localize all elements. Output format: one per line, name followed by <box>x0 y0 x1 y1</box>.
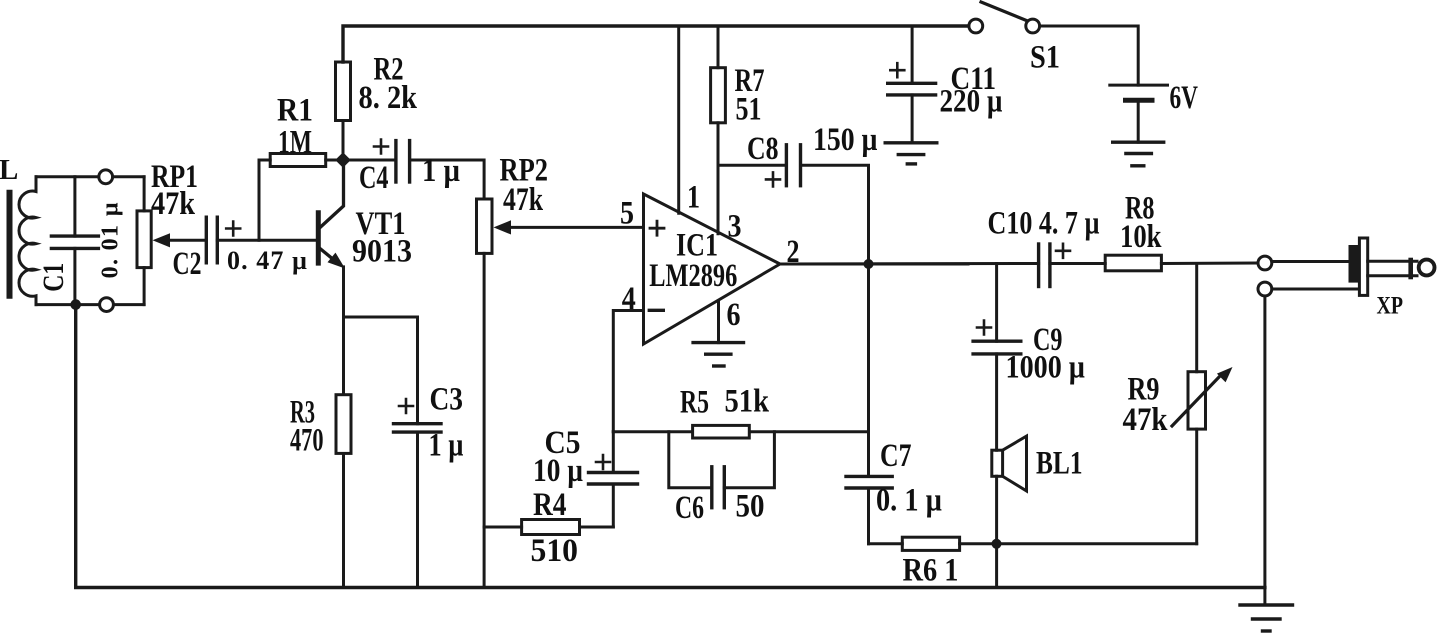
wire: output down to feedback and C7 <box>867 264 870 476</box>
svg-text:C10 4. 7 µ: C10 4. 7 µ <box>988 206 1100 242</box>
svg-text:6: 6 <box>727 297 741 333</box>
svg-text:LM2896: LM2896 <box>649 258 737 294</box>
RP1 wiper arrow <box>153 233 207 247</box>
svg-text:510: 510 <box>531 533 579 569</box>
svg-text:1 µ: 1 µ <box>422 153 460 189</box>
wire: C2 to VT1 base <box>217 239 318 242</box>
svg-text:C7: C7 <box>880 438 912 474</box>
battery GB 6V long plate <box>1110 84 1168 87</box>
pin 3 wire <box>717 165 720 234</box>
svg-text:9013: 9013 <box>352 234 412 270</box>
svg-text:10 µ: 10 µ <box>533 453 583 489</box>
resistor R6 <box>902 537 1196 550</box>
resistor R4 <box>522 520 614 535</box>
junction: output / C8 / feedback <box>864 259 874 269</box>
svg-text:47k: 47k <box>151 186 196 222</box>
svg-text:4: 4 <box>622 281 636 317</box>
capacitor C3 <box>394 424 442 588</box>
plug XP body (black) <box>1349 245 1361 283</box>
C3 polarity plus <box>399 399 413 413</box>
svg-text:6V: 6V <box>1170 80 1199 116</box>
ground (C11) <box>885 143 937 164</box>
capacitor C2 <box>206 217 217 263</box>
capacitor C9 <box>973 341 1021 450</box>
svg-text:C6: C6 <box>675 490 704 526</box>
switch S1 contact left <box>969 19 983 33</box>
svg-text:C4: C4 <box>359 160 389 196</box>
capacitor C8 <box>718 145 869 264</box>
wire: rail from switch S1 to battery <box>1040 26 1138 85</box>
C9 polarity plus <box>977 321 991 335</box>
svg-text:C3: C3 <box>430 382 464 418</box>
switch S1 contact right <box>1026 19 1040 33</box>
plug XP shaft <box>1368 261 1417 276</box>
svg-text:R4: R4 <box>533 487 567 523</box>
svg-text:C2: C2 <box>173 246 202 282</box>
node A: R1/R2/C4/VT1 collector <box>335 152 351 168</box>
C5 polarity plus <box>596 455 610 469</box>
wire: rail to C11 <box>911 26 914 83</box>
svg-text:R1: R1 <box>277 93 313 129</box>
svg-text:47k: 47k <box>503 182 543 218</box>
wire: R4 from ground column <box>484 526 521 529</box>
transistor VT1 base bar <box>316 213 321 263</box>
svg-text:0. 1 µ: 0. 1 µ <box>876 483 942 519</box>
IC1 plus input mark <box>650 221 664 235</box>
pin 1 wire to rail <box>677 26 680 213</box>
pin 4 wire (inverting input loop) <box>613 311 643 432</box>
wire: C4 to RP2 top <box>410 160 485 199</box>
svg-text:C1: C1 <box>37 263 70 292</box>
C11 polarity plus <box>890 63 904 77</box>
C8 polarity plus <box>766 172 780 186</box>
VT1 emitter with arrow <box>320 249 345 588</box>
wire: tank top (L / C1 / terminal / RP1) <box>36 175 144 178</box>
wire: C7 to R6 <box>869 542 903 545</box>
svg-text:3: 3 <box>728 209 742 245</box>
capacitor C11 <box>888 83 936 143</box>
resistor R8 <box>1105 255 1161 271</box>
pin 6 wire to ground <box>717 301 720 342</box>
potentiometer RP2 <box>477 199 493 588</box>
battery 6V short plate <box>1126 98 1153 103</box>
wire: XP top contact to plug <box>1272 260 1348 263</box>
plug XP bottom contact <box>1258 282 1272 296</box>
wire: R1 left leg down to base <box>259 160 270 240</box>
svg-text:1000 µ: 1000 µ <box>1006 350 1086 386</box>
loudspeaker BL1 <box>992 436 1027 587</box>
svg-text:5: 5 <box>620 196 634 232</box>
svg-text:1: 1 <box>687 180 700 216</box>
wire: bottom ground rail <box>76 305 1265 588</box>
capacitor C6 loop wires <box>669 432 775 488</box>
wire: C9 / BL1 branch <box>995 264 998 342</box>
op-amp IC1 triangle <box>644 194 781 344</box>
svg-text:R6 1: R6 1 <box>903 553 959 589</box>
wire: XP bottom contact to plug collar <box>1272 288 1360 291</box>
resistor R7 <box>711 26 726 165</box>
capacitor C5 <box>589 432 638 527</box>
wire: XP bottom contact to ground <box>1263 296 1266 605</box>
svg-text:2: 2 <box>787 234 800 270</box>
junction: BL1 / R6 / R9 <box>992 539 1002 549</box>
svg-text:150 µ: 150 µ <box>813 122 878 158</box>
C2 polarity plus <box>226 222 240 236</box>
svg-text:0. 47 µ: 0. 47 µ <box>227 246 307 275</box>
C4 polarity plus <box>374 140 388 154</box>
svg-text:51: 51 <box>736 92 762 128</box>
svg-text:8. 2k: 8. 2k <box>359 80 418 116</box>
svg-text:47k: 47k <box>1123 402 1169 438</box>
wire: top supply rail <box>343 26 969 62</box>
capacitor C10 <box>1039 244 1050 287</box>
ground (XP) <box>1240 605 1293 631</box>
plug XP collar <box>1359 238 1367 295</box>
capacitor C4 <box>343 141 410 182</box>
inductor L (antenna coil) <box>19 177 36 305</box>
svg-text:470: 470 <box>290 423 324 459</box>
svg-text:BL1: BL1 <box>1036 446 1083 482</box>
wire: tank bottom <box>36 303 144 306</box>
potentiometer RP1 <box>137 177 151 305</box>
svg-text:S1: S1 <box>1030 40 1060 76</box>
svg-text:1M: 1M <box>278 125 312 161</box>
wire: battery to ground <box>1137 100 1140 142</box>
rheostat R9 <box>1172 264 1233 544</box>
switch S1 lever <box>981 2 1027 21</box>
VT1 collector <box>320 160 344 228</box>
svg-text:XP: XP <box>1377 293 1404 320</box>
svg-text:C8: C8 <box>747 131 779 167</box>
wire: feedback line pin4 to output column <box>613 430 868 433</box>
C10 polarity plus <box>1056 244 1070 258</box>
terminal (bottom antenna tap) <box>100 298 114 312</box>
IC1 minus input mark <box>649 309 663 312</box>
resistor R2 <box>336 62 351 160</box>
ground (battery) <box>1113 142 1164 166</box>
capacitor C7 <box>846 476 892 543</box>
capacitor C6 plates <box>712 467 725 508</box>
svg-text:50: 50 <box>736 489 765 525</box>
capacitor C1 <box>51 177 98 305</box>
svg-text:0. 01 µ: 0. 01 µ <box>98 202 124 278</box>
svg-text:10k: 10k <box>1120 219 1162 255</box>
svg-text:51k: 51k <box>725 384 770 420</box>
ground (IC1 pin 6) <box>693 343 743 366</box>
RP2 wiper arrow from pin 5 <box>494 220 644 234</box>
junction: C1 bottom / ground rail <box>70 299 81 310</box>
svg-text:220 µ: 220 µ <box>940 84 1003 120</box>
resistor R1 <box>270 154 343 167</box>
svg-text:1 µ: 1 µ <box>429 428 464 464</box>
terminal (top antenna tap) <box>99 170 113 184</box>
resistor R3 <box>336 395 351 454</box>
svg-text:L: L <box>0 154 18 186</box>
wire: output node (pin 2 to XP) <box>780 263 968 266</box>
plug XP top contact <box>1258 256 1272 270</box>
inductor L core bar <box>7 193 13 296</box>
wire: emitter branch to C3 <box>344 317 418 424</box>
svg-text:R5: R5 <box>680 385 709 421</box>
plug XP tip <box>1419 260 1435 276</box>
resistor R5 <box>693 425 750 438</box>
